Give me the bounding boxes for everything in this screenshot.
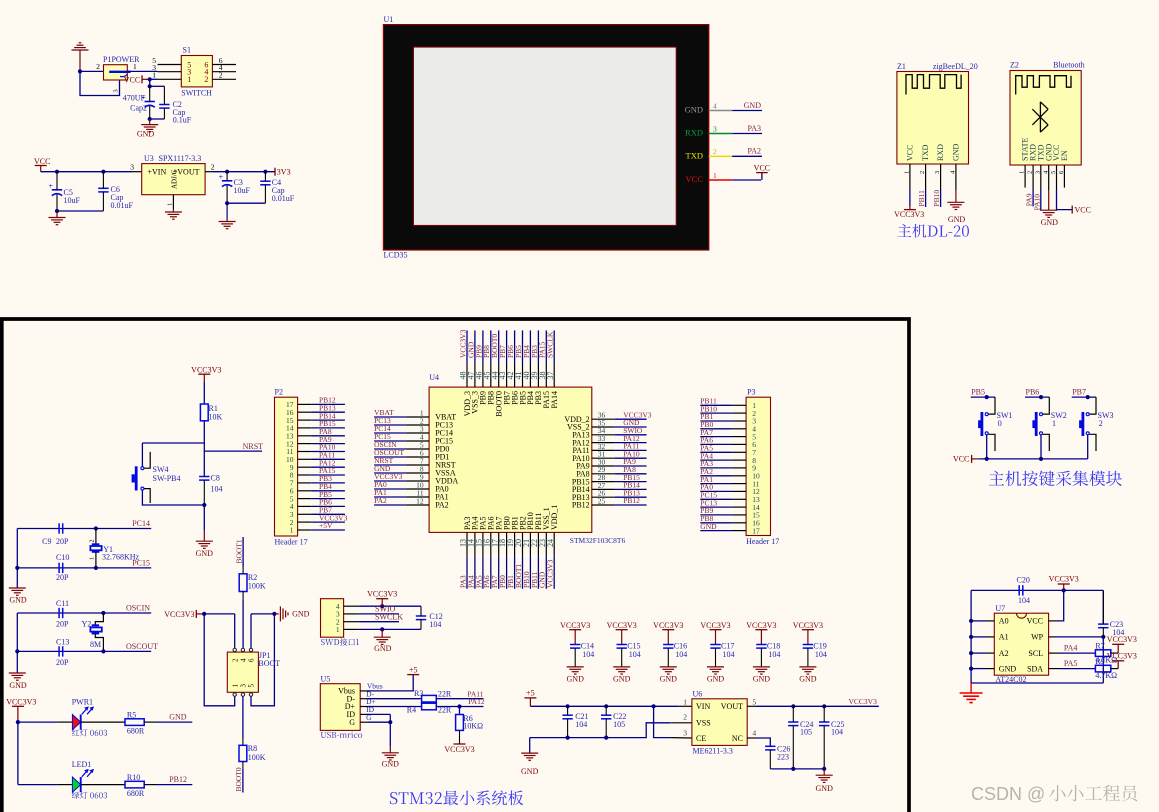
svg-text:PB5: PB5: [971, 388, 985, 397]
svg-text:VCC3V3: VCC3V3: [191, 365, 221, 374]
svg-text:104: 104: [815, 650, 827, 659]
svg-text:VCC3V3: VCC3V3: [546, 559, 555, 588]
svg-text:Z1: Z1: [897, 62, 906, 71]
svg-text:PA5: PA5: [1064, 659, 1078, 668]
svg-text:PA2: PA2: [374, 496, 387, 505]
svg-text:VCC3V3: VCC3V3: [653, 621, 683, 630]
svg-text:+5: +5: [409, 665, 418, 674]
svg-text:GND: GND: [374, 644, 392, 653]
svg-text:0.01uF: 0.01uF: [111, 201, 134, 210]
svg-text:22R: 22R: [438, 690, 452, 699]
svg-text:2: 2: [713, 147, 717, 156]
svg-text:100K: 100K: [248, 581, 266, 590]
svg-text:VCC: VCC: [1027, 617, 1043, 626]
svg-text:104: 104: [575, 720, 587, 729]
svg-text:SWCLK: SWCLK: [546, 331, 555, 358]
svg-text:GND: GND: [707, 675, 725, 684]
svg-text:VCC3V3: VCC3V3: [1049, 575, 1079, 584]
svg-text:104: 104: [211, 484, 223, 493]
svg-text:SW4: SW4: [153, 465, 169, 474]
svg-text:3: 3: [713, 124, 717, 133]
svg-text:EN: EN: [1060, 150, 1069, 161]
svg-text:LCD35: LCD35: [384, 251, 408, 260]
svg-text:470UF: 470UF: [123, 93, 146, 102]
svg-text:PC14: PC14: [132, 519, 150, 528]
svg-text:PB12: PB12: [572, 501, 590, 510]
svg-text:PC15: PC15: [132, 558, 150, 567]
svg-text:GND: GND: [816, 784, 834, 793]
svg-text:223: 223: [777, 752, 789, 761]
svg-text:0: 0: [998, 419, 1002, 428]
svg-text:SDA: SDA: [1027, 664, 1043, 673]
svg-text:VCC3V3: VCC3V3: [6, 698, 36, 707]
svg-text:R8: R8: [248, 744, 257, 753]
svg-text:PB6: PB6: [1026, 388, 1040, 397]
svg-text:C19: C19: [813, 641, 826, 650]
svg-text:2: 2: [683, 713, 687, 722]
svg-text:S1: S1: [183, 46, 191, 55]
svg-text:2: 2: [231, 658, 239, 662]
svg-text:20P: 20P: [56, 537, 69, 546]
svg-text:Header 17: Header 17: [746, 537, 779, 546]
svg-text:U3: U3: [144, 154, 154, 163]
svg-text:20P: 20P: [56, 619, 69, 628]
svg-text:PA14: PA14: [550, 391, 559, 409]
svg-text:10uF: 10uF: [64, 196, 81, 205]
svg-text:100K: 100K: [248, 753, 266, 762]
svg-text:PB12: PB12: [623, 496, 640, 505]
svg-text:OSCOUT: OSCOUT: [126, 642, 158, 651]
svg-text:2: 2: [1099, 419, 1103, 428]
svg-text:SWITCH: SWITCH: [181, 89, 212, 98]
svg-text:BOOT0: BOOT0: [234, 767, 243, 791]
svg-text:C18: C18: [767, 641, 780, 650]
svg-text:PA2: PA2: [435, 501, 449, 510]
svg-text:1: 1: [231, 684, 239, 688]
svg-text:104: 104: [629, 650, 641, 659]
svg-text:GND: GND: [952, 143, 961, 161]
svg-text:PA12: PA12: [468, 697, 485, 706]
svg-text:ME6211-3.3: ME6211-3.3: [693, 746, 733, 755]
svg-text:104: 104: [582, 650, 594, 659]
svg-text:VCC: VCC: [1075, 205, 1091, 214]
svg-text:4: 4: [240, 658, 248, 662]
svg-text:GND: GND: [685, 105, 703, 115]
svg-text:U5: U5: [321, 675, 331, 684]
svg-text:VCC3V3: VCC3V3: [367, 589, 397, 598]
svg-text:5: 5: [752, 697, 756, 706]
svg-text:CSDN @: CSDN @: [971, 784, 1045, 804]
svg-text:C9: C9: [42, 537, 51, 546]
svg-text:SWCLK: SWCLK: [375, 612, 403, 621]
svg-text:VCC3V3: VCC3V3: [700, 621, 730, 630]
svg-text:GND: GND: [700, 522, 717, 531]
svg-text:SCL: SCL: [1028, 649, 1043, 658]
svg-text:4: 4: [713, 101, 717, 110]
svg-text:VCC3V3: VCC3V3: [560, 621, 590, 630]
svg-text:GND: GND: [660, 675, 678, 684]
svg-text:+5V: +5V: [319, 521, 333, 530]
svg-text:10K: 10K: [209, 413, 223, 422]
svg-text:3: 3: [683, 728, 687, 737]
svg-text:680R: 680R: [127, 726, 145, 735]
svg-text:Cap2: Cap2: [130, 104, 147, 113]
svg-text:P3: P3: [747, 387, 755, 396]
svg-text:VCC: VCC: [953, 455, 969, 464]
svg-text:104: 104: [723, 650, 735, 659]
svg-text:GND: GND: [137, 130, 155, 139]
svg-text:VCC3V3: VCC3V3: [1107, 635, 1137, 644]
svg-text:24: 24: [546, 539, 555, 547]
svg-text:R10: R10: [127, 773, 140, 782]
svg-text:104: 104: [1018, 596, 1030, 605]
svg-text:PB11: PB11: [917, 190, 926, 207]
svg-text:VCC: VCC: [754, 163, 770, 172]
svg-text:RXD: RXD: [936, 144, 945, 161]
svg-text:A2: A2: [999, 649, 1009, 658]
svg-text:GND: GND: [521, 767, 539, 776]
svg-text:C8: C8: [211, 473, 220, 482]
svg-text:VSS: VSS: [696, 718, 711, 727]
svg-text:SPX1117-3.3: SPX1117-3.3: [159, 154, 202, 163]
svg-text:OSCIN: OSCIN: [126, 604, 150, 613]
svg-text:2: 2: [96, 62, 100, 71]
svg-text:22R: 22R: [438, 705, 452, 714]
svg-text:2: 2: [90, 540, 96, 543]
svg-text:10KΩ: 10KΩ: [463, 721, 483, 730]
svg-text:VCC3V3: VCC3V3: [746, 621, 776, 630]
svg-text:GND: GND: [799, 675, 817, 684]
svg-text:CE: CE: [696, 734, 706, 743]
svg-text:G: G: [366, 713, 372, 722]
svg-text:5: 5: [248, 684, 256, 688]
svg-text:U6: U6: [693, 690, 703, 699]
svg-text:680R: 680R: [127, 789, 145, 798]
svg-text:C10: C10: [56, 553, 69, 562]
svg-text:1: 1: [187, 75, 191, 84]
svg-text:LED1: LED1: [72, 760, 92, 769]
svg-text:BOOT1: BOOT1: [234, 539, 243, 563]
svg-text:GND: GND: [169, 713, 187, 722]
svg-text:20P: 20P: [56, 658, 69, 667]
svg-text:PA2: PA2: [748, 147, 762, 156]
svg-text:PA4: PA4: [1064, 644, 1078, 653]
svg-text:1: 1: [167, 203, 174, 206]
svg-text:PB7: PB7: [1072, 388, 1086, 397]
svg-text:104: 104: [831, 728, 843, 737]
svg-text:GND: GND: [753, 675, 771, 684]
svg-text:12: 12: [416, 496, 424, 505]
svg-text:VCC3V3: VCC3V3: [1107, 652, 1137, 661]
svg-text:17: 17: [752, 526, 760, 535]
svg-text:VOUT: VOUT: [721, 702, 743, 711]
svg-text:PA3: PA3: [748, 124, 762, 133]
svg-text:GND: GND: [744, 101, 762, 110]
svg-text:PWR1: PWR1: [72, 698, 93, 707]
svg-text:GND: GND: [567, 675, 585, 684]
svg-text:SW-PB4: SW-PB4: [153, 474, 181, 483]
svg-text:1: 1: [290, 526, 294, 535]
svg-text:2: 2: [211, 162, 215, 171]
svg-text:4: 4: [752, 728, 756, 737]
svg-text:105: 105: [613, 720, 625, 729]
svg-text:G: G: [349, 718, 355, 727]
svg-text:6: 6: [248, 658, 256, 662]
svg-text:WP: WP: [1031, 633, 1044, 642]
svg-text:STM32F103C8T6: STM32F103C8T6: [570, 536, 626, 545]
svg-text:VCC3V3: VCC3V3: [849, 697, 878, 706]
svg-text:105: 105: [800, 728, 812, 737]
svg-text:C11: C11: [56, 599, 69, 608]
svg-text:VCC: VCC: [34, 157, 50, 166]
svg-text:GND: GND: [382, 760, 400, 769]
svg-text:1: 1: [1052, 419, 1056, 428]
svg-text:104: 104: [675, 650, 687, 659]
svg-text:3V3: 3V3: [277, 167, 291, 176]
svg-text:Header 17: Header 17: [275, 537, 308, 546]
svg-text:R3: R3: [414, 689, 423, 698]
svg-text:25: 25: [598, 496, 606, 505]
svg-text:GND: GND: [292, 610, 310, 619]
svg-text:1: 1: [90, 557, 96, 560]
svg-text:VDD_1: VDD_1: [550, 505, 559, 530]
svg-text:VCC: VCC: [124, 75, 140, 84]
svg-text:Z2: Z2: [1010, 61, 1019, 70]
svg-text:PB10: PB10: [932, 190, 941, 207]
svg-text:GND: GND: [1041, 218, 1059, 227]
svg-text:VCC3V3: VCC3V3: [607, 621, 637, 630]
svg-text:1: 1: [683, 697, 687, 706]
svg-text:P2: P2: [275, 388, 283, 397]
svg-text:NC: NC: [732, 734, 743, 743]
svg-text:U7: U7: [995, 604, 1005, 613]
svg-text:+: +: [49, 181, 54, 190]
svg-text:GND: GND: [999, 664, 1017, 673]
svg-text:0.01uF: 0.01uF: [272, 194, 295, 203]
svg-text:GND: GND: [196, 549, 214, 558]
svg-text:GND: GND: [9, 596, 27, 605]
svg-text:zigBeeDL_20: zigBeeDL_20: [933, 62, 978, 71]
svg-text:NRST: NRST: [243, 442, 264, 451]
svg-text:U4: U4: [429, 373, 439, 382]
svg-text:104: 104: [429, 620, 441, 629]
svg-text:37: 37: [546, 372, 555, 380]
svg-text:R5: R5: [127, 711, 136, 720]
svg-text:3: 3: [130, 162, 134, 171]
svg-text:PA10: PA10: [1032, 194, 1041, 211]
svg-text:+5: +5: [526, 688, 535, 697]
svg-text:3: 3: [240, 684, 248, 688]
svg-text:104: 104: [768, 650, 780, 659]
svg-text:C20: C20: [1017, 576, 1030, 585]
svg-text:C17: C17: [721, 641, 734, 650]
svg-text:TXD: TXD: [686, 151, 703, 161]
svg-text:ADJ/G: ADJ/G: [171, 169, 179, 189]
svg-text:1: 1: [336, 625, 340, 634]
svg-text:TXD: TXD: [921, 144, 930, 161]
svg-text:VCC3V3: VCC3V3: [894, 210, 924, 219]
svg-text:1: 1: [713, 171, 717, 180]
svg-text:VCC3V3: VCC3V3: [164, 610, 194, 619]
svg-text:C15: C15: [627, 641, 640, 650]
svg-text:4.7KΩ: 4.7KΩ: [1095, 671, 1117, 680]
svg-text:A1: A1: [999, 633, 1009, 642]
svg-text:PB12: PB12: [169, 775, 187, 784]
svg-text:8M: 8M: [90, 640, 101, 649]
svg-text:A0: A0: [999, 617, 1009, 626]
svg-text:0.1uF: 0.1uF: [173, 115, 192, 124]
svg-text:VCC: VCC: [906, 145, 915, 161]
svg-text:Bluetooth: Bluetooth: [1053, 61, 1085, 70]
svg-text:10uF: 10uF: [234, 186, 251, 195]
svg-text:R9: R9: [1095, 657, 1104, 666]
svg-text:20P: 20P: [56, 573, 69, 582]
svg-text:VCC3V3: VCC3V3: [793, 621, 823, 630]
svg-text:C16: C16: [674, 641, 687, 650]
svg-text:C13: C13: [56, 637, 69, 646]
svg-text:U1: U1: [384, 15, 394, 24]
svg-text:VCC3V3: VCC3V3: [444, 745, 474, 754]
svg-text:3: 3: [113, 89, 120, 92]
svg-text:BOOT: BOOT: [258, 659, 280, 668]
svg-text:RXD: RXD: [685, 128, 703, 138]
svg-text:R7: R7: [1095, 641, 1104, 650]
svg-text:GND: GND: [948, 215, 966, 224]
svg-text:R4: R4: [407, 705, 416, 714]
svg-text:Y2: Y2: [82, 620, 92, 629]
svg-text:GND: GND: [613, 675, 631, 684]
svg-text:VIN: VIN: [696, 702, 710, 711]
svg-text:2: 2: [219, 71, 223, 80]
svg-text:VCC: VCC: [686, 174, 704, 184]
svg-text:+: +: [219, 172, 224, 181]
svg-text:P1POWER: P1POWER: [103, 55, 140, 64]
svg-text:+VIN: +VIN: [148, 168, 167, 177]
svg-text:C14: C14: [581, 641, 594, 650]
svg-text:GND: GND: [9, 681, 27, 690]
svg-text:2: 2: [204, 75, 208, 84]
